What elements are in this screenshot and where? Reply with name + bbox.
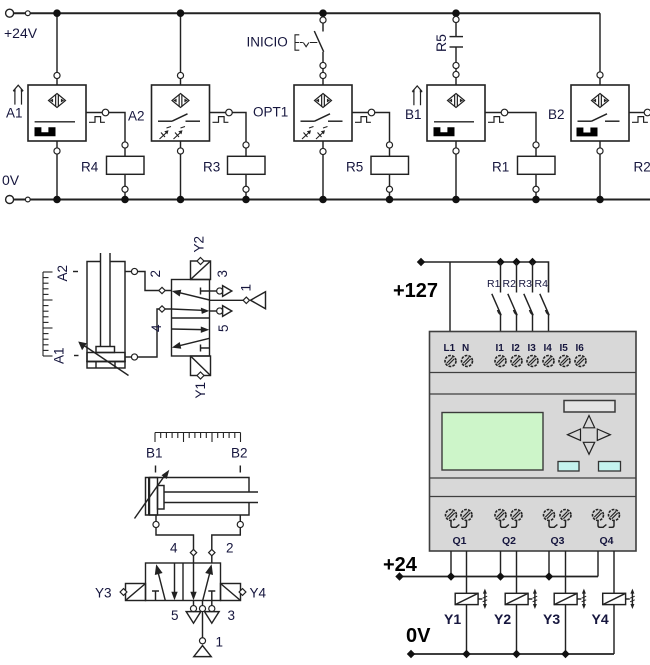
terminal A2 bottom xyxy=(177,148,183,154)
svg-text:Y2: Y2 xyxy=(192,236,207,253)
junction 0V R4 xyxy=(121,196,129,204)
sensor B1 xyxy=(427,85,485,141)
0V rail xyxy=(6,196,650,204)
junction 0V OPT1 xyxy=(319,196,327,204)
junction R3 xyxy=(528,258,536,266)
output OPT1: stub, terminal, pulse symbol xyxy=(352,109,375,122)
junction top rail B1 xyxy=(452,9,460,17)
contact Q1 xyxy=(451,520,467,527)
svg-text:Y3: Y3 xyxy=(95,586,112,601)
junction R2 xyxy=(512,258,520,266)
sensor A1 xyxy=(28,85,86,141)
junction 0V R5 xyxy=(386,196,394,204)
terminal below rail B1 xyxy=(453,16,459,22)
label A1 arrow xyxy=(13,85,23,104)
svg-text:Y3: Y3 xyxy=(543,611,560,627)
junction +24 Q2 xyxy=(496,572,504,580)
terminal I6 xyxy=(575,356,586,367)
relay coil R4 xyxy=(107,142,145,200)
junction top rail OPT1 xyxy=(319,9,327,17)
node diamond port2 B xyxy=(209,549,215,555)
coil Y4 plc xyxy=(603,589,635,609)
output A2: stub, terminal, pulse symbol xyxy=(210,109,233,122)
svg-text:R4: R4 xyxy=(535,278,549,290)
terminal OPT1 bottom xyxy=(320,148,326,154)
svg-text:R4: R4 xyxy=(81,160,99,175)
arrow piston B (adjust) xyxy=(135,470,170,519)
terminal OPT1 b xyxy=(320,72,326,78)
svg-text:I6: I6 xyxy=(576,343,585,354)
wire OPT1 drop from rail to switch xyxy=(322,13,324,31)
svg-text:+24: +24 xyxy=(383,554,418,576)
wire Q3b to coil Y3 xyxy=(565,551,567,593)
valve A body xyxy=(172,280,210,357)
keypad down xyxy=(583,442,594,454)
button ESC xyxy=(558,462,579,472)
exhaust port 5 xyxy=(210,306,232,317)
cylinder A body xyxy=(87,253,125,368)
svg-text:R2: R2 xyxy=(634,160,650,175)
svg-text:R5: R5 xyxy=(346,160,363,175)
port A bottom terminal xyxy=(125,354,138,360)
terminal B1 a xyxy=(453,62,459,68)
terminal Q2a xyxy=(495,510,506,521)
wire Q4b to coil Y4 xyxy=(613,551,615,593)
junction 0V Y1 xyxy=(462,650,470,658)
wire coil Y1 to 0V xyxy=(466,605,468,654)
wire port4 B xyxy=(156,527,194,563)
wire B1 drop from rail to R5 contact xyxy=(455,13,457,36)
wire A1 bottom to 0V xyxy=(56,141,58,200)
svg-text:A2: A2 xyxy=(128,109,145,124)
svg-text:I5: I5 xyxy=(560,343,569,354)
sensor B2 xyxy=(571,85,629,141)
valve B right chamber: arrow 4 to 5 xyxy=(190,563,196,600)
wire A2 drop from +24V rail xyxy=(180,13,182,85)
valve A top chamber: arrow 4 to 5 xyxy=(172,308,210,314)
svg-text:INICIO: INICIO xyxy=(247,35,288,50)
contact R3 xyxy=(524,262,534,332)
contact Q3 xyxy=(549,520,566,527)
wire A2 out to R3 column xyxy=(232,113,246,143)
keypad up xyxy=(583,416,594,428)
terminal B2 bottom xyxy=(597,148,603,154)
terminal 0V plc xyxy=(407,650,415,658)
svg-text:1: 1 xyxy=(216,635,224,650)
junction 0V Y2 xyxy=(512,650,520,658)
solenoid Y4 xyxy=(221,584,246,601)
terminal B1 bottom xyxy=(453,148,459,154)
junction 0V B2 xyxy=(596,196,604,204)
contact Q4 xyxy=(598,520,614,527)
svg-text:N: N xyxy=(462,343,469,354)
wire coil Y3 to 0V xyxy=(565,605,567,654)
+24 rail xyxy=(400,576,599,578)
valve A top chamber: port 3 blocked xyxy=(201,288,210,295)
relay coil R3 xyxy=(228,142,266,200)
valve B left chamber: arrow 2 to 3 xyxy=(171,563,177,600)
svg-text:Y4: Y4 xyxy=(592,611,609,627)
wire port2 B xyxy=(212,527,241,563)
svg-text:I2: I2 xyxy=(512,343,521,354)
junction 0V A1 xyxy=(53,196,61,204)
PLC slot xyxy=(564,401,615,413)
svg-text:Q2: Q2 xyxy=(502,535,516,547)
wire Q1a to +24 xyxy=(450,551,452,577)
terminal A2 top xyxy=(177,72,183,78)
svg-text:2: 2 xyxy=(148,270,163,278)
valve B left chamber: arrow 1 to 4 xyxy=(155,564,166,600)
terminal OPT1 a xyxy=(320,62,326,68)
svg-text:I3: I3 xyxy=(528,343,537,354)
port A top terminal xyxy=(125,268,138,274)
ruler A xyxy=(43,272,53,356)
junction 0V R3 xyxy=(242,196,250,204)
svg-text:0V: 0V xyxy=(2,172,20,188)
sensor OPT1 xyxy=(294,85,352,141)
port B left terminal xyxy=(153,515,159,528)
terminal Q4a xyxy=(593,510,604,521)
label B1 arrow xyxy=(412,86,422,105)
wire Q3a to +24 xyxy=(548,551,550,577)
wire B1 out to R1 column xyxy=(507,113,536,143)
contact R4 xyxy=(540,294,550,332)
svg-text:B1: B1 xyxy=(146,446,163,461)
svg-text:Q4: Q4 xyxy=(600,535,614,547)
wire port4 A xyxy=(137,309,171,357)
junction +24 Q1 xyxy=(447,572,455,580)
terminal L1 xyxy=(445,356,456,367)
solenoid Y1 xyxy=(191,356,211,379)
node diamond port4 xyxy=(159,306,165,312)
wire A2 bottom to 0V xyxy=(180,141,182,200)
switch INICIO blade xyxy=(314,31,323,52)
relay coil R1 xyxy=(518,142,556,200)
mark B2 position xyxy=(239,466,241,473)
terminal Q3a xyxy=(544,510,555,521)
wire port2 A xyxy=(137,272,171,291)
junction 0V A2 xyxy=(177,196,185,204)
terminal I3 xyxy=(527,356,538,367)
terminal Q2b xyxy=(511,510,522,521)
junction 0V R1 xyxy=(532,196,540,204)
junction +24 Q3 xyxy=(545,572,553,580)
svg-text:+24V: +24V xyxy=(4,25,38,41)
0V rail plc xyxy=(411,653,614,655)
svg-text:Q3: Q3 xyxy=(551,535,565,547)
terminal A1 bottom xyxy=(54,148,60,154)
svg-text:A2: A2 xyxy=(55,265,70,282)
terminal I5 xyxy=(559,356,570,367)
svg-text:R2: R2 xyxy=(503,278,517,290)
valve B right chamber: arrow 1 to 2 xyxy=(203,564,213,600)
mark A2 position xyxy=(73,271,78,273)
terminal B1 b xyxy=(453,71,459,77)
wire below switch OPT1 xyxy=(322,52,324,85)
terminal I2 xyxy=(511,356,522,367)
terminal Q1b xyxy=(461,510,472,521)
contact Q2 xyxy=(501,520,517,527)
ruler B xyxy=(155,433,241,443)
terminal I1 xyxy=(495,356,506,367)
svg-text:3: 3 xyxy=(215,270,230,278)
terminal I4 xyxy=(543,356,554,367)
terminal N xyxy=(462,356,473,367)
wire A1 drop from +24V rail xyxy=(56,13,58,85)
wire B1 bottom to 0V xyxy=(455,141,457,200)
valve B body xyxy=(146,563,221,601)
contact R1 xyxy=(492,262,502,332)
contact R2 xyxy=(508,262,518,332)
keypad right xyxy=(597,429,610,440)
terminal Q1a xyxy=(446,510,457,521)
solenoid Y3 xyxy=(120,584,145,601)
mark A1 position xyxy=(74,355,79,357)
svg-text:2: 2 xyxy=(226,541,234,556)
coil Y1 xyxy=(455,589,487,609)
svg-text:R5: R5 xyxy=(433,34,449,52)
terminal +127 xyxy=(417,258,425,266)
svg-text:B2: B2 xyxy=(231,446,248,461)
wire Q2b to coil Y2 xyxy=(516,551,518,593)
svg-text:0V: 0V xyxy=(406,625,431,647)
wire Q1b to coil Y1 xyxy=(466,551,468,593)
wire OPT1 bottom to 0V xyxy=(322,141,324,200)
node diamond port4 B xyxy=(190,549,196,555)
output A1: stub, terminal, pulse symbol xyxy=(86,109,109,122)
arrow piston A (adjust) xyxy=(78,342,128,376)
svg-text:A1: A1 xyxy=(6,106,23,121)
wire coil Y4 to 0V xyxy=(613,605,615,654)
wire Q4a to +24 corner xyxy=(597,551,599,577)
valve B right chamber: port 3 blocked xyxy=(208,591,215,601)
output B1: stub, terminal, pulse symbol xyxy=(485,109,508,122)
svg-text:L1: L1 xyxy=(444,343,456,354)
PLC screen xyxy=(442,413,543,471)
exhaust port 3 xyxy=(210,286,232,297)
wire A1 out to R4 column xyxy=(108,113,125,143)
svg-text:R3: R3 xyxy=(519,278,533,290)
junction 0V Y3 xyxy=(561,650,569,658)
coil Y3 plc xyxy=(554,589,586,609)
junction top rail A1 xyxy=(53,9,61,17)
port B right terminal xyxy=(237,515,243,528)
svg-text:R1: R1 xyxy=(487,278,501,290)
contact R5 (NO, vertical) xyxy=(450,37,464,47)
svg-text:A1: A1 xyxy=(52,347,67,364)
terminal A1 top xyxy=(54,72,60,78)
junction R1 xyxy=(496,258,504,266)
terminal +24 xyxy=(395,572,403,580)
keypad left xyxy=(568,429,581,440)
svg-text:Y1: Y1 xyxy=(444,611,461,627)
wire B2 drop from rail corner xyxy=(599,13,601,85)
svg-text:4: 4 xyxy=(170,541,178,556)
solenoid Y2 xyxy=(191,258,211,280)
+24V rail xyxy=(6,9,600,17)
svg-text:I1: I1 xyxy=(496,343,505,354)
wire +127 rail xyxy=(421,262,549,293)
coil Y2 xyxy=(505,589,537,609)
svg-text:4: 4 xyxy=(149,324,164,332)
valve A bottom chamber: arrow 2 to 3 xyxy=(172,327,210,333)
relay coil R5 xyxy=(371,142,409,200)
wire Q2a to +24 xyxy=(500,551,502,577)
mark B1 position xyxy=(155,466,157,473)
svg-text:R1: R1 xyxy=(492,160,509,175)
node diamond port2 xyxy=(159,287,165,293)
svg-text:3: 3 xyxy=(228,608,236,623)
cylinder B body xyxy=(146,478,259,516)
output B2: stub, terminal, pulse symbol xyxy=(629,109,650,122)
valve A bottom chamber: port 5 blocked xyxy=(201,345,210,352)
svg-text:Y1: Y1 xyxy=(193,382,208,399)
terminal B2 top xyxy=(597,72,603,78)
button OK xyxy=(599,462,621,472)
svg-text:5: 5 xyxy=(171,608,179,623)
svg-text:R3: R3 xyxy=(203,160,220,175)
terminal below rail OPT1 xyxy=(320,17,326,23)
supply port 1 B xyxy=(194,601,211,657)
svg-text:Y4: Y4 xyxy=(250,586,267,601)
terminal Q4b xyxy=(609,510,620,521)
svg-text:5: 5 xyxy=(216,324,231,332)
svg-text:B1: B1 xyxy=(405,107,422,122)
terminal Q3b xyxy=(560,510,571,521)
valve A bottom chamber: arrow 1 to 4 xyxy=(172,338,210,349)
svg-text:Q1: Q1 xyxy=(453,535,467,547)
valve A top chamber: arrow 1 to 2 xyxy=(172,290,210,300)
PLC body xyxy=(430,332,637,552)
svg-text:OPT1: OPT1 xyxy=(253,105,288,120)
svg-text:B2: B2 xyxy=(548,107,565,122)
exhaust port 3 B xyxy=(205,601,220,624)
junction 0V B1 xyxy=(452,196,460,204)
svg-text:+127: +127 xyxy=(393,280,438,302)
svg-text:Y2: Y2 xyxy=(494,611,511,627)
wire OPT1 out to R5 column xyxy=(374,113,389,143)
exhaust port 5 B xyxy=(186,601,201,624)
svg-text:I4: I4 xyxy=(544,343,553,354)
wire coil Y2 to 0V xyxy=(516,605,518,654)
sensor A2 xyxy=(152,85,210,141)
switch INICIO actuator xyxy=(295,35,317,50)
junction top rail A2 xyxy=(177,9,185,17)
wire L1 drop xyxy=(449,262,451,332)
wire below R5 contact xyxy=(455,47,457,85)
valve B left chamber: port 5 blocked xyxy=(152,591,159,601)
wire B2 bottom to 0V xyxy=(599,141,601,200)
svg-text:1: 1 xyxy=(239,284,254,292)
supply port 1 xyxy=(210,292,266,309)
